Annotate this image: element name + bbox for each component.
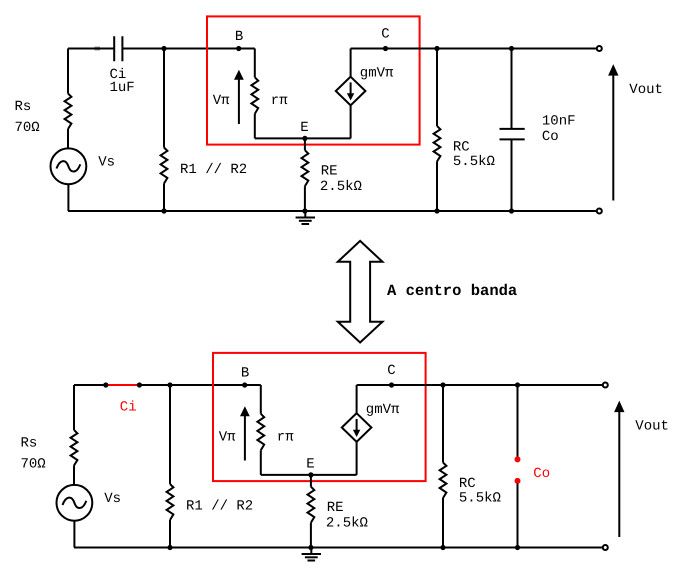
node E <box>302 136 307 141</box>
resistor RE branch wire lower <box>304 186 306 211</box>
red box around transistor model (top) <box>207 16 420 144</box>
wire diamond bottom stem <box>350 105 352 138</box>
svg-text:C: C <box>381 27 389 43</box>
junction node RC top <box>434 46 439 51</box>
wire bottom rail <box>68 210 597 212</box>
svg-text:2.5kΩ: 2.5kΩ <box>320 179 362 195</box>
svg-text:E: E <box>306 457 314 473</box>
svg-text:Rs: Rs <box>15 99 32 115</box>
junction node R1//R2 top <box>161 46 166 51</box>
junction node R1//R2 top (bottom circuit) <box>167 382 172 387</box>
svg-text:rπ: rπ <box>277 430 294 446</box>
wire diamond top stem (bottom circuit) <box>356 385 358 413</box>
junction node RC bottom (bottom circuit) <box>440 545 445 550</box>
current source gmVpi diamond (bottom circuit) <box>342 413 372 442</box>
wire Co open lower (bottom circuit) <box>517 483 519 547</box>
resistor RE (bottom circuit) <box>308 487 315 523</box>
junction node Co bottom (bottom circuit) <box>515 545 520 550</box>
wire Co open upper (bottom circuit) <box>517 385 519 457</box>
resistor RC <box>434 126 441 162</box>
red node Co open upper terminal <box>515 456 521 462</box>
wire rpi to E wire <box>254 114 256 139</box>
wire rpi to E (bottom circuit) <box>260 450 262 475</box>
wire diamond bottom stem (bottom circuit) <box>356 442 358 475</box>
resistor RC (bottom circuit) <box>440 463 447 499</box>
svg-text:70Ω: 70Ω <box>15 120 40 136</box>
resistor RE branch lower (bottom circuit) <box>310 523 312 548</box>
svg-text:A centro banda: A centro banda <box>387 282 517 300</box>
wire tick mark on top-left wire <box>95 47 101 51</box>
junction node Co top <box>509 46 514 51</box>
svg-text:Vout: Vout <box>635 418 669 434</box>
wire from Ci to rpi corner through nodes <box>122 48 254 50</box>
svg-text:B: B <box>235 29 243 45</box>
resistor RE branch wire upper <box>304 138 306 150</box>
svg-text:1uF: 1uF <box>110 80 135 96</box>
output terminal bottom (top circuit) <box>597 209 602 214</box>
current source gmVpi diamond <box>336 77 366 106</box>
node B <box>236 46 241 51</box>
resistor RC branch upper (bottom circuit) <box>442 385 444 463</box>
svg-text:RE: RE <box>327 500 344 516</box>
node C (bottom circuit) <box>389 382 394 387</box>
svg-text:Vs: Vs <box>98 155 115 171</box>
wire diamond top stem <box>350 49 352 77</box>
node C <box>383 46 388 51</box>
svg-text:RE: RE <box>321 163 338 179</box>
wire Vs to bottom rail (bottom circuit) <box>73 521 75 548</box>
svg-text:C: C <box>387 363 395 379</box>
output terminal top (top circuit) <box>597 46 602 51</box>
wire top-right from diamond stem to output terminal <box>351 48 597 50</box>
wire B corner down rpi branch (bottom circuit) <box>260 385 262 414</box>
resistor RE branch upper (bottom circuit) <box>310 475 312 487</box>
capacitor C1 Ci 1uF plates <box>114 36 122 61</box>
output terminal top (bottom circuit) <box>603 383 608 388</box>
ground symbol (top circuit) <box>304 211 306 217</box>
resistor R1//R2 <box>161 148 168 184</box>
wire Rs to Vs (bottom circuit) <box>73 466 75 486</box>
resistor R1//R2 branch wire upper <box>163 49 165 148</box>
resistor Rs <box>65 94 72 130</box>
voltage arrow Vpi <box>238 79 240 124</box>
junction node RE bottom (bottom circuit) <box>308 545 313 550</box>
resistor Rs (bottom circuit) <box>71 430 78 466</box>
resistor rpi (bottom circuit) <box>257 414 264 451</box>
source Vs sine circle <box>51 148 87 184</box>
svg-text:2.5kΩ: 2.5kΩ <box>326 515 368 531</box>
red wire Ci shorted (midband) <box>106 384 140 386</box>
wire top-left (bottom circuit) to Ci short <box>74 384 106 386</box>
red node Co open lower terminal <box>515 478 521 484</box>
svg-text:Vout: Vout <box>629 82 663 98</box>
capacitor Co branch wire upper <box>511 49 513 129</box>
arrow Vout (top circuit) <box>612 75 614 201</box>
svg-text:70Ω: 70Ω <box>21 456 46 472</box>
svg-text:10nF: 10nF <box>542 114 576 130</box>
svg-text:Ci: Ci <box>120 399 137 415</box>
capacitor Co branch wire lower <box>511 140 513 211</box>
svg-text:R1 // R2: R1 // R2 <box>180 162 247 178</box>
resistor R1//R2 (bottom circuit) <box>167 484 174 520</box>
junction node RC top (bottom circuit) <box>440 382 445 387</box>
wire top-left from Vs rail to capacitor Ci <box>68 48 114 50</box>
red box around transistor model (bottom) <box>213 353 426 481</box>
svg-text:Rs: Rs <box>21 436 38 452</box>
wire Ci short to rpi corner (bottom circuit) <box>139 384 260 386</box>
junction node Co top (bottom circuit) <box>515 382 520 387</box>
output terminal bottom (bottom circuit) <box>603 545 608 550</box>
svg-text:Co: Co <box>542 129 559 145</box>
node E (bottom circuit) <box>308 472 313 477</box>
ground symbol (bottom circuit) <box>310 548 312 554</box>
svg-text:gmVπ: gmVπ <box>360 66 394 82</box>
svg-text:E: E <box>300 120 308 136</box>
voltage arrow Vpi (bottom circuit) <box>244 415 246 460</box>
svg-text:gmVπ: gmVπ <box>366 402 400 418</box>
junction node Co bottom <box>509 208 514 213</box>
svg-text:B: B <box>241 366 249 382</box>
svg-text:Vπ: Vπ <box>213 93 230 109</box>
junction node R1//R2 bottom <box>161 208 166 213</box>
wire left rail upper (bottom circuit) <box>73 385 75 430</box>
resistor R1//R2 branch upper (bottom circuit) <box>169 385 171 484</box>
junction node RE bottom <box>302 208 307 213</box>
resistor RE <box>302 150 309 186</box>
arrow Vout (bottom circuit) <box>618 411 620 537</box>
svg-text:5.5kΩ: 5.5kΩ <box>459 490 501 506</box>
wire B corner down rpi branch <box>254 49 256 78</box>
node Ci short right <box>137 382 142 387</box>
svg-text:rπ: rπ <box>271 93 288 109</box>
resistor R1//R2 branch wire lower <box>163 184 165 212</box>
svg-text:Co: Co <box>533 466 550 482</box>
svg-text:Vπ: Vπ <box>219 430 236 446</box>
junction node RC bottom <box>434 208 439 213</box>
svg-text:Vs: Vs <box>104 491 121 507</box>
node B (bottom circuit) <box>242 382 247 387</box>
node Ci short left <box>103 382 108 387</box>
wire left rail upper segment <box>67 49 69 94</box>
resistor RC branch wire upper <box>436 49 438 127</box>
capacitor C2 Co plates <box>500 129 525 140</box>
wire bottom rail (bottom circuit) <box>74 547 603 549</box>
wire E horizontal (bottom circuit) <box>261 474 357 476</box>
resistor rpi <box>251 77 258 114</box>
wire Rs to Vs source <box>67 129 69 149</box>
wire Vs to bottom rail <box>67 184 69 211</box>
source Vs sine circle (bottom circuit) <box>57 485 93 521</box>
junction node R1//R2 bottom (bottom circuit) <box>167 545 172 550</box>
resistor RC branch lower (bottom circuit) <box>442 498 444 548</box>
svg-text:R1 // R2: R1 // R2 <box>186 498 253 514</box>
wire E horizontal <box>255 137 351 139</box>
svg-text:5.5kΩ: 5.5kΩ <box>453 154 495 170</box>
wire top-right (bottom circuit) <box>357 384 603 386</box>
resistor R1//R2 branch lower (bottom circuit) <box>169 520 171 548</box>
resistor RC branch wire lower <box>436 162 438 212</box>
double arrow between circuits <box>338 241 383 343</box>
